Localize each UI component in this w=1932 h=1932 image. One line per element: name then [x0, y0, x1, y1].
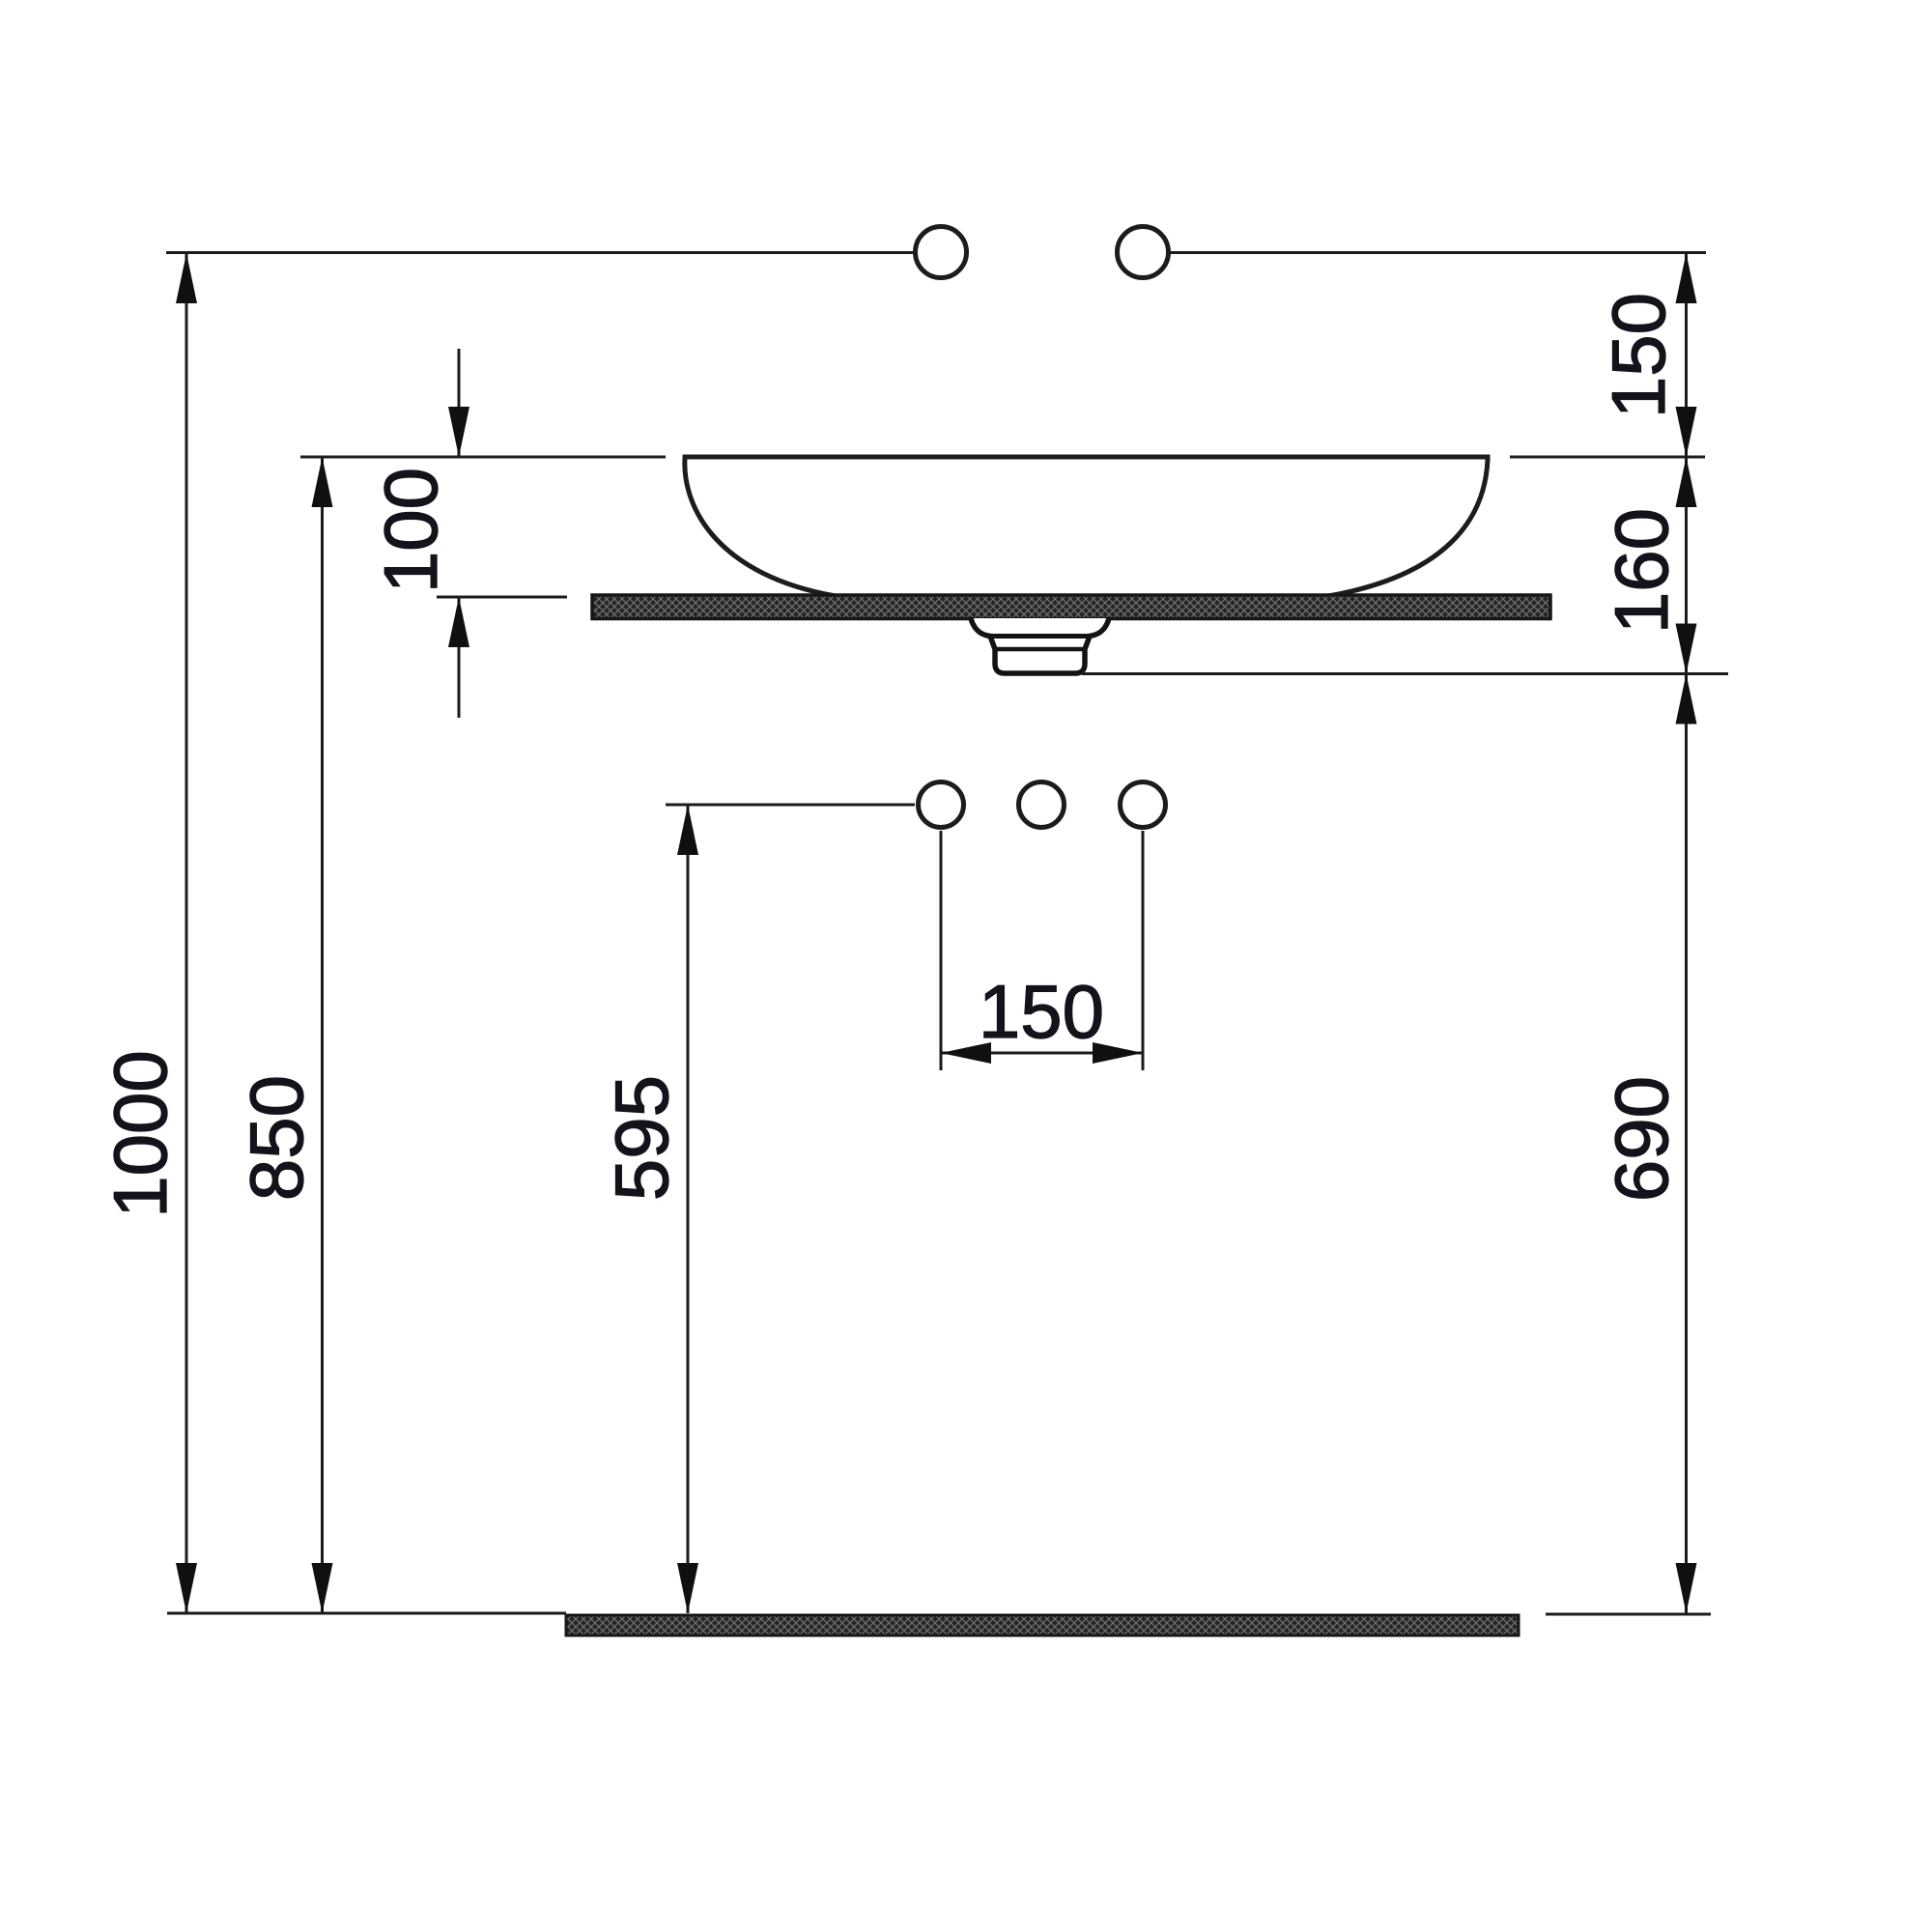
wall mounting level tick line right: [1171, 251, 1706, 254]
extension line below right mid circle: [1142, 831, 1145, 1070]
svg-text:850: 850: [234, 1075, 319, 1201]
dimension line 150 horizontal: [941, 1042, 1143, 1064]
svg-text:160: 160: [1599, 508, 1684, 634]
mid faucet hole circle right: [1121, 782, 1166, 828]
mid faucet hole circle center: [1019, 782, 1065, 828]
floor level thin line left: [167, 1612, 566, 1615]
dimension 100 upper segment with down arrow: [448, 349, 469, 457]
svg-text:690: 690: [1599, 1076, 1684, 1202]
dimension line 595: [677, 805, 698, 1613]
dimension line 850: [312, 457, 333, 1613]
svg-text:595: 595: [599, 1075, 684, 1201]
svg-text:150: 150: [979, 969, 1104, 1054]
washbasin bowl profile: [685, 457, 1488, 596]
right dimension line 150 segment: [1676, 253, 1697, 457]
floor level tick line right: [1546, 1613, 1711, 1616]
svg-text:1000: 1000: [98, 1050, 183, 1218]
svg-text:100: 100: [368, 468, 453, 593]
countertop top level short tick: [437, 596, 567, 599]
faucet hole circle left: [916, 227, 967, 278]
three circles level tick line: [666, 804, 915, 807]
faucet hole circle right: [1118, 227, 1169, 278]
wall mounting level tick line left: [166, 251, 913, 254]
dimension line 1000: [176, 253, 197, 1613]
floor slab (hatched): [566, 1615, 1519, 1635]
drain fitting under countertop: [971, 618, 1109, 673]
basin top level tick line left: [300, 456, 666, 459]
svg-text:150: 150: [1596, 293, 1681, 418]
basin top level tick line right: [1510, 456, 1705, 459]
countertop slab (hatched): [592, 595, 1550, 619]
right dimension line 690 segment: [1676, 674, 1697, 1614]
extension line below left mid circle: [940, 831, 943, 1070]
mid faucet hole circle left: [919, 782, 964, 828]
right dimension line 160 segment: [1676, 457, 1697, 674]
drain bottom level tick line: [1082, 672, 1728, 675]
dimension 100 lower segment with up arrow: [448, 597, 469, 718]
